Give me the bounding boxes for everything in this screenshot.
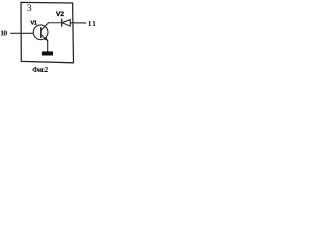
block 3 boundary box [21, 2, 74, 62]
svg-text:3: 3 [27, 3, 32, 14]
transistor V1 emitter line [41, 35, 48, 41]
ground chassis bar [42, 51, 53, 55]
wire input lead from terminal 10 to transistor base [11, 32, 34, 34]
wire emitter to ground [47, 40, 49, 51]
svg-text:11: 11 [88, 19, 97, 28]
transistor V1 base bar [40, 28, 42, 38]
emitter arrowhead [44, 37, 48, 41]
diode V2 cathode bar [61, 19, 63, 26]
svg-text:V2: V2 [56, 11, 64, 18]
diode V2 triangle [62, 20, 70, 27]
svg-text:Фиг.2: Фиг.2 [32, 66, 48, 74]
transistor V1 collector line [41, 23, 48, 30]
wire diode to terminal 11 [70, 22, 86, 24]
transistor Q V1 circle [33, 25, 48, 40]
svg-text:10: 10 [0, 29, 7, 38]
wire collector to diode [48, 22, 61, 24]
